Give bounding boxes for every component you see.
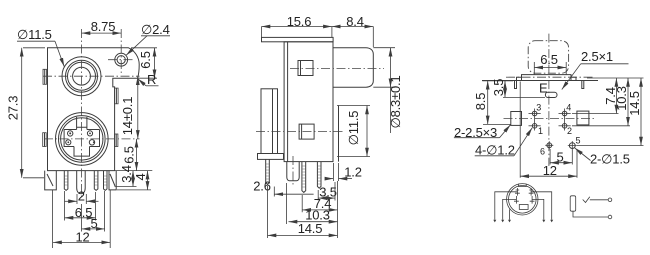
dim extension verticals top (262, 27, 374, 48)
left edge lower tab (43, 133, 47, 147)
mounting flange top (522, 75, 572, 81)
left mounting foot (45, 171, 57, 190)
dim 6.5 right-bottom (121, 139, 136, 171)
top flange plate (262, 37, 334, 41)
dim 6.5 top-right (138, 48, 155, 78)
label 4-d1.2 (475, 128, 533, 158)
mini-DIN horizontal centerline (44, 138, 140, 140)
pin 2 (559, 124, 571, 129)
left view body outline with top-right ear (48, 48, 140, 171)
label 2-2.5x3 (454, 125, 511, 140)
lower square hole (299, 124, 314, 139)
icon wire left A (495, 192, 518, 220)
jack symbol sleeve wire (573, 211, 608, 217)
pin 1 (529, 124, 541, 129)
svg-text:4: 4 (133, 173, 148, 180)
jack symbol body (570, 196, 576, 211)
flange right ear (571, 77, 576, 80)
svg-text:4: 4 (566, 102, 571, 112)
svg-text:E: E (539, 81, 548, 96)
icon pin cross 3 (515, 188, 520, 196)
icon bottom slot (519, 205, 528, 210)
back wall inner line (338, 106, 340, 162)
icon top notch (518, 184, 526, 187)
svg-text:6.5: 6.5 (138, 51, 153, 68)
RCA vertical centerline (81, 29, 83, 199)
dim 4 (117, 171, 151, 190)
center ground pin (wide U) (77, 171, 86, 194)
svg-text:5: 5 (556, 149, 563, 164)
svg-text:2-∅1.5: 2-∅1.5 (590, 152, 630, 167)
mini-DIN wiring icon inner circle (509, 186, 537, 214)
svg-text:∅11.5: ∅11.5 (17, 27, 52, 42)
dim 1.2 (325, 163, 362, 181)
phantom rounded outline (528, 41, 568, 73)
icon pin cross 4 (529, 188, 534, 196)
svg-text:∅11.5: ∅11.5 (346, 111, 361, 146)
pin 3 (529, 111, 541, 116)
mini-DIN face stair outline (64, 130, 99, 147)
icon terminals (493, 220, 553, 223)
svg-text:8.5: 8.5 (473, 93, 488, 110)
dim 7.4 (middle) (302, 181, 337, 238)
dim 6.5 top-right extension lines (131, 48, 157, 78)
svg-text:1: 1 (538, 126, 543, 136)
mini-DIN shield circles (56, 113, 109, 166)
mini-DIN keyway notch (77, 117, 87, 130)
dim d8.3+-0.1 (373, 48, 403, 133)
icon pin cross 2 (530, 196, 535, 204)
dim 8.75 (82, 19, 122, 34)
pin B (thin) (94, 171, 98, 191)
dim 14+-0.1 (120, 76, 138, 139)
left pad slot (511, 112, 522, 126)
svg-text:2.6: 2.6 (253, 179, 270, 194)
dim 14.5 (right view) (577, 78, 644, 146)
pin labels (536, 102, 572, 136)
mini-DIN pin hole 4 (87, 131, 92, 136)
svg-text:3: 3 (536, 102, 541, 112)
icon wire right A (531, 192, 552, 220)
svg-text:14.5: 14.5 (298, 221, 323, 236)
12-dim right leg extension (109, 190, 111, 248)
dim 3.5 (middle) (318, 182, 337, 201)
pin column centerlines (535, 109, 565, 131)
icon wire left B (503, 199, 517, 219)
dim 27.3 extension lines (23, 48, 45, 178)
dim 7.4 (right view) (572, 78, 644, 114)
dim 10.3 (middle) (289, 208, 338, 223)
mini-DIN bottom slot (74, 147, 90, 157)
left edge upper tab (43, 69, 47, 84)
dim 3.5 (right view) (491, 79, 545, 98)
svg-text:6.5: 6.5 (540, 52, 557, 67)
dim 12 bottom (53, 230, 110, 245)
inner wall line (287, 42, 289, 162)
dim 6.5 bottom (65, 191, 96, 221)
pin M2 (302, 162, 306, 193)
label R with leader (138, 72, 159, 87)
shared extension line at body bottom right (115, 170, 153, 172)
right edge upper tab (115, 88, 119, 104)
svg-text:2.5×1: 2.5×1 (581, 49, 613, 64)
jack symbol tip wire (590, 199, 608, 201)
svg-text:27.3: 27.3 (5, 96, 20, 121)
DIN center pin side (U) (287, 162, 299, 181)
pin 5 circle (568, 141, 577, 150)
RCA barrel (right protrusion) (333, 48, 373, 87)
pads centerline (504, 117, 595, 119)
DIN barrel (left protrusion) (261, 89, 278, 154)
svg-text:∅8.3±0.1: ∅8.3±0.1 (388, 75, 403, 128)
front pin (266, 159, 270, 184)
mini-DIN pin hole 3 (68, 131, 73, 136)
flange left ear (517, 77, 522, 80)
icon wire right B (532, 199, 544, 219)
small hole vertical centerline (120, 29, 122, 74)
main body rectangle (284, 42, 333, 162)
mounting surface line (482, 80, 598, 82)
dim 12 (right view) (520, 82, 577, 179)
dim 10.3 (right view) (572, 78, 630, 126)
left hanging tab (515, 81, 517, 89)
dim d11.5 (middle) (337, 106, 370, 157)
dim 2.6 (253, 179, 313, 239)
vertical centerline (548, 34, 550, 166)
upper square hole (298, 61, 313, 76)
svg-text:2: 2 (567, 126, 572, 136)
small hole horizontal centerline (108, 59, 135, 61)
right mounting foot (109, 171, 116, 190)
labels 5 and 6 (540, 136, 581, 157)
svg-text:3.5: 3.5 (491, 79, 506, 96)
pin C (thin) (104, 171, 108, 191)
RCA jack concentric circles (62, 57, 101, 96)
mini-DIN wiring icon outer circle (507, 184, 538, 215)
dim 6.5 (right view) (534, 52, 566, 75)
label d11.5 (17, 27, 64, 67)
svg-text:6.5: 6.5 (121, 146, 136, 163)
svg-text:∅2.4: ∅2.4 (141, 22, 170, 37)
small hole circle (2.4) (115, 53, 128, 66)
DIN barrel flange (258, 154, 284, 160)
dim 8.4 (332, 14, 373, 29)
E slot 2.5x1 (545, 92, 557, 97)
pin M3 (317, 162, 321, 189)
RCA horizontal centerline (43, 75, 140, 77)
svg-text:R: R (147, 72, 156, 87)
svg-text:6: 6 (540, 147, 545, 157)
pin 4 (559, 111, 571, 116)
right hanging tab (582, 81, 584, 89)
U-pin centerline (292, 156, 294, 186)
label 2.5x1 (562, 49, 629, 90)
mini-DIN pin hole 2 (89, 140, 95, 145)
12-dim left leg extension (52, 190, 54, 248)
svg-text:14±0.1: 14±0.1 (120, 97, 135, 135)
dim 15.6 (262, 14, 332, 29)
svg-text:2: 2 (78, 189, 85, 204)
dim 27.3 (5, 48, 21, 178)
dim 5 (right view) (550, 149, 572, 165)
label 2-d1.5 (575, 148, 630, 167)
flange centerline (506, 76, 594, 78)
icon wire shield (509, 209, 511, 219)
svg-text:14.5: 14.5 (627, 91, 642, 116)
jack symbol sleeve terminal (608, 215, 612, 219)
svg-text:4-∅1.2: 4-∅1.2 (475, 143, 515, 158)
dim 2 (65, 189, 99, 205)
svg-text:3.4: 3.4 (119, 165, 134, 182)
DIN axis centerline (256, 131, 344, 133)
mini-DIN pin hole 1 (66, 140, 71, 145)
dim 5 bottom (82, 191, 105, 232)
pin A (thin) (64, 171, 68, 191)
RCA axis centerline (290, 68, 384, 70)
label d2.4 (126, 22, 170, 55)
svg-text:8.75: 8.75 (91, 19, 116, 34)
right edge lower tab (115, 134, 118, 147)
dim 14.5 (middle) (268, 221, 338, 236)
dim 3.4 (115, 165, 137, 186)
jack symbol tip contact (583, 197, 590, 203)
svg-text:5: 5 (576, 136, 581, 146)
svg-text:1.2: 1.2 (344, 164, 361, 179)
right pad slot (577, 111, 589, 125)
icon pin cross 1 (514, 196, 519, 204)
pin 6 circle (545, 141, 553, 149)
jack symbol tip terminal (608, 198, 612, 202)
dim 8.5 (473, 81, 513, 125)
